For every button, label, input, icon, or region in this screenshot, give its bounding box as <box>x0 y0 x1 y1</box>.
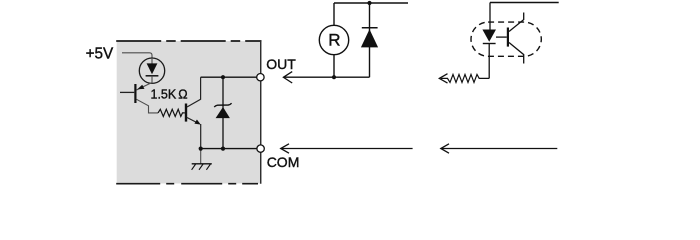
svg-text:R: R <box>328 30 340 49</box>
svg-text:+5V: +5V <box>86 45 114 62</box>
svg-text:1.5KΩ: 1.5KΩ <box>151 88 188 102</box>
svg-text:OUT: OUT <box>266 56 296 72</box>
svg-text:COM: COM <box>267 154 300 170</box>
